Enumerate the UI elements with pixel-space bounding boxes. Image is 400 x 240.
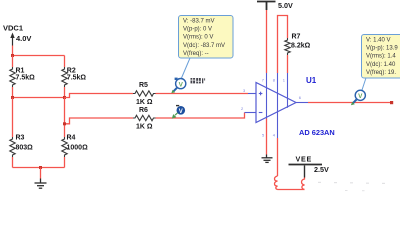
svg-text:7.5kΩ: 7.5kΩ: [67, 75, 87, 82]
svg-text:V(freq): --: V(freq): --: [183, 51, 209, 57]
resistor R4: [62, 137, 67, 157]
svg-text:V(p-p): 0 V: V(p-p): 0 V: [183, 27, 212, 33]
svg-text:1000Ω: 1000Ω: [67, 145, 89, 152]
wire pin5 to ground: [266, 119, 268, 155]
wire VDC1 to top rail: [12, 46, 14, 56]
wire op-amp output: [308, 102, 393, 104]
measurement box 1: [179, 16, 234, 59]
svg-text:V(p-p): 13.9: V(p-p): 13.9: [366, 46, 398, 52]
ground (op-amp REF): [262, 155, 273, 163]
svg-text:R3: R3: [16, 135, 25, 142]
resistor R7: [285, 38, 290, 55]
probe 3 leader line: [362, 79, 366, 91]
op-amp pin numbers top: [262, 78, 286, 83]
svg-text:V: V: [179, 81, 184, 88]
resistor R1: [12, 56, 14, 68]
svg-text:V: 1.40 V: V: 1.40 V: [366, 38, 390, 44]
wire R2 bottom to R4 top: [64, 98, 66, 138]
op-amp U1 pins (top): [267, 73, 288, 138]
node junction ground tap: [39, 166, 42, 169]
node junction mid-right: [63, 96, 66, 99]
wire R7 to op-amp pin 1: [287, 55, 289, 73]
wire upper signal path (to R5): [65, 94, 134, 98]
svg-text:5.0V: 5.0V: [278, 1, 293, 10]
probe 1 name text: [191, 78, 206, 83]
wire 5V to op-amp pin 7: [266, 10, 268, 73]
svg-text:8.2kΩ: 8.2kΩ: [291, 43, 311, 50]
node junction mid-left: [11, 96, 14, 99]
5.0V power rail symbol: [257, 2, 276, 11]
resistor R6: [133, 115, 156, 120]
op-amp U1 triangle: [256, 83, 296, 123]
svg-text:7.5kΩ: 7.5kΩ: [16, 75, 36, 82]
ground (left divider): [40, 168, 42, 179]
svg-text:AD 623AN: AD 623AN: [299, 128, 335, 137]
node junction lower tap: [63, 122, 66, 125]
svg-text:803Ω: 803Ω: [16, 145, 34, 152]
op-amp - input: [245, 112, 263, 114]
measurement box 2: [362, 35, 400, 79]
wire mid rail R1-R2: [13, 97, 65, 99]
node junction top-left: [11, 54, 14, 57]
wire bottom rail: [13, 167, 65, 169]
probe 1 (magnifier with V): [171, 78, 185, 94]
wire lower signal path (to R6): [65, 118, 134, 124]
VDC1 arrow symbol: [10, 33, 14, 46]
wire R5 to op-amp + input: [156, 93, 249, 95]
svg-text:U1: U1: [306, 76, 317, 85]
svg-text:V(rms): 0 V: V(rms): 0 V: [183, 35, 213, 41]
resistor R5: [133, 91, 156, 96]
svg-text:V(dc): -83.7 mV: V(dc): -83.7 mV: [183, 43, 225, 49]
op-amp + input: [248, 92, 262, 96]
op-amp pins bottom numbers: [262, 133, 276, 138]
svg-text:R6: R6: [139, 107, 148, 114]
svg-text:VEE: VEE: [296, 155, 312, 164]
svg-text:V: V: [179, 109, 183, 115]
svg-text:1K Ω: 1K Ω: [136, 99, 153, 106]
resistor R3: [12, 98, 14, 138]
probe 2 (filled V probe on lower path): [172, 106, 185, 119]
wire top rail: [13, 55, 65, 57]
VEE rail symbol: [289, 165, 323, 178]
wire R6 to op-amp - input: [156, 113, 245, 119]
svg-text:R5: R5: [139, 82, 148, 89]
svg-text:4.0V: 4.0V: [16, 34, 31, 43]
op-amp output pin: [296, 102, 308, 104]
node output end: [390, 101, 393, 104]
svg-text:V(rms): 1.4: V(rms): 1.4: [366, 54, 396, 60]
probe 3 (magnifier with V on output): [351, 90, 366, 105]
svg-text:V(dc): 1.40: V(dc): 1.40: [366, 62, 396, 68]
probe 1 leader line: [182, 58, 191, 78]
svg-text:R1: R1: [16, 68, 25, 75]
faint artifact dashes: [318, 182, 385, 191]
svg-text:V: V: [358, 93, 363, 100]
resistor R2: [64, 56, 66, 68]
wire pin4 to VEE (with coil kinks): [277, 138, 279, 176]
wire RG loop pin 8: [278, 16, 288, 74]
svg-text:2.5V: 2.5V: [314, 165, 329, 174]
svg-text:R7: R7: [292, 34, 301, 41]
svg-text:1K Ω: 1K Ω: [136, 124, 153, 131]
svg-text:R4: R4: [67, 135, 76, 142]
svg-text:R2: R2: [67, 68, 76, 75]
svg-text:V: -83.7 mV: V: -83.7 mV: [183, 19, 214, 25]
svg-text:V(freq): 19.: V(freq): 19.: [366, 70, 396, 76]
svg-text:VDC1: VDC1: [3, 24, 23, 33]
